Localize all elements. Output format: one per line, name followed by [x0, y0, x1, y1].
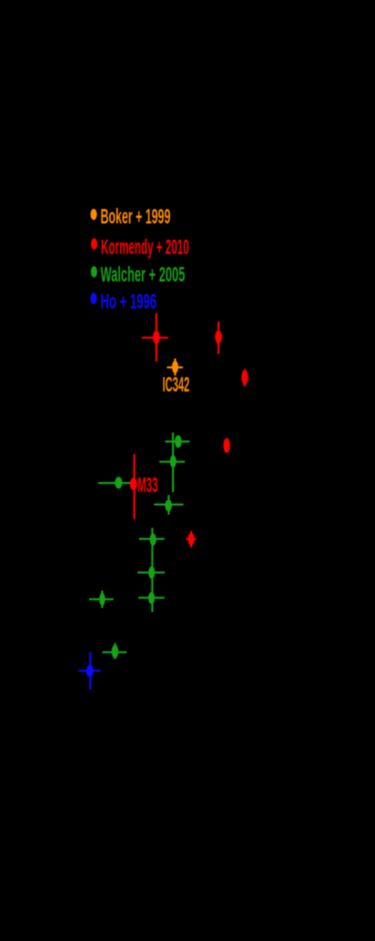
- data point M green marker: [99, 593, 105, 606]
- svg-text:Ho + 1996: Ho + 1996: [101, 290, 157, 313]
- data point A red: error bars: [142, 313, 168, 362]
- data point C orange marker: [172, 361, 178, 374]
- shared vertical error bar J-L-N column: [151, 528, 153, 612]
- data point P blue marker: [86, 665, 93, 677]
- data point L green: error bar: [138, 572, 165, 574]
- data point H green marker: [115, 477, 122, 489]
- legend marker Boker: [91, 209, 97, 220]
- data point O green marker: [112, 645, 119, 658]
- svg-text:Boker + 1999: Boker + 1999: [101, 206, 171, 229]
- data point H green: error bar: [98, 482, 136, 484]
- data point M33 red: error bar: [133, 454, 135, 519]
- svg-text:Walcher + 2005: Walcher + 2005: [101, 263, 186, 286]
- data point N green marker: [148, 592, 155, 604]
- data point L green marker: [148, 566, 155, 579]
- data point M33 red marker: [130, 478, 137, 490]
- data point B red: error bar: [218, 322, 220, 355]
- data point C orange IC342: error bars: [167, 359, 183, 376]
- data point I green marker: [165, 500, 172, 512]
- legend marker Kormendy: [91, 238, 97, 249]
- data point B red marker: [215, 330, 222, 343]
- data point J green: error bar: [139, 538, 165, 540]
- data point N green: error bar: [138, 597, 164, 599]
- data point D red marker: [241, 370, 248, 385]
- data point P blue: error bars: [79, 652, 101, 690]
- legend marker Ho: [91, 293, 97, 304]
- data point M green: error bars: [89, 591, 114, 609]
- data point F red marker: [223, 438, 230, 453]
- data point O green: error bars: [102, 643, 126, 659]
- data point I green: error bars: [154, 495, 183, 515]
- legend marker Walcher: [91, 266, 97, 277]
- data point G green: error bars: [159, 433, 185, 493]
- data point A red marker: [153, 331, 160, 344]
- svg-text:Kormendy + 2010: Kormendy + 2010: [101, 236, 189, 259]
- data point K red marker: [188, 533, 194, 546]
- svg-text:M33: M33: [138, 474, 159, 497]
- svg-text:IC342: IC342: [163, 374, 190, 397]
- data point E green marker: [175, 435, 182, 448]
- data point J green marker: [150, 533, 157, 545]
- data point K red: error bars: [186, 531, 196, 548]
- data point D red: error bar: [244, 369, 246, 387]
- data point E green: error bar: [165, 441, 190, 443]
- data point G green marker: [170, 455, 176, 468]
